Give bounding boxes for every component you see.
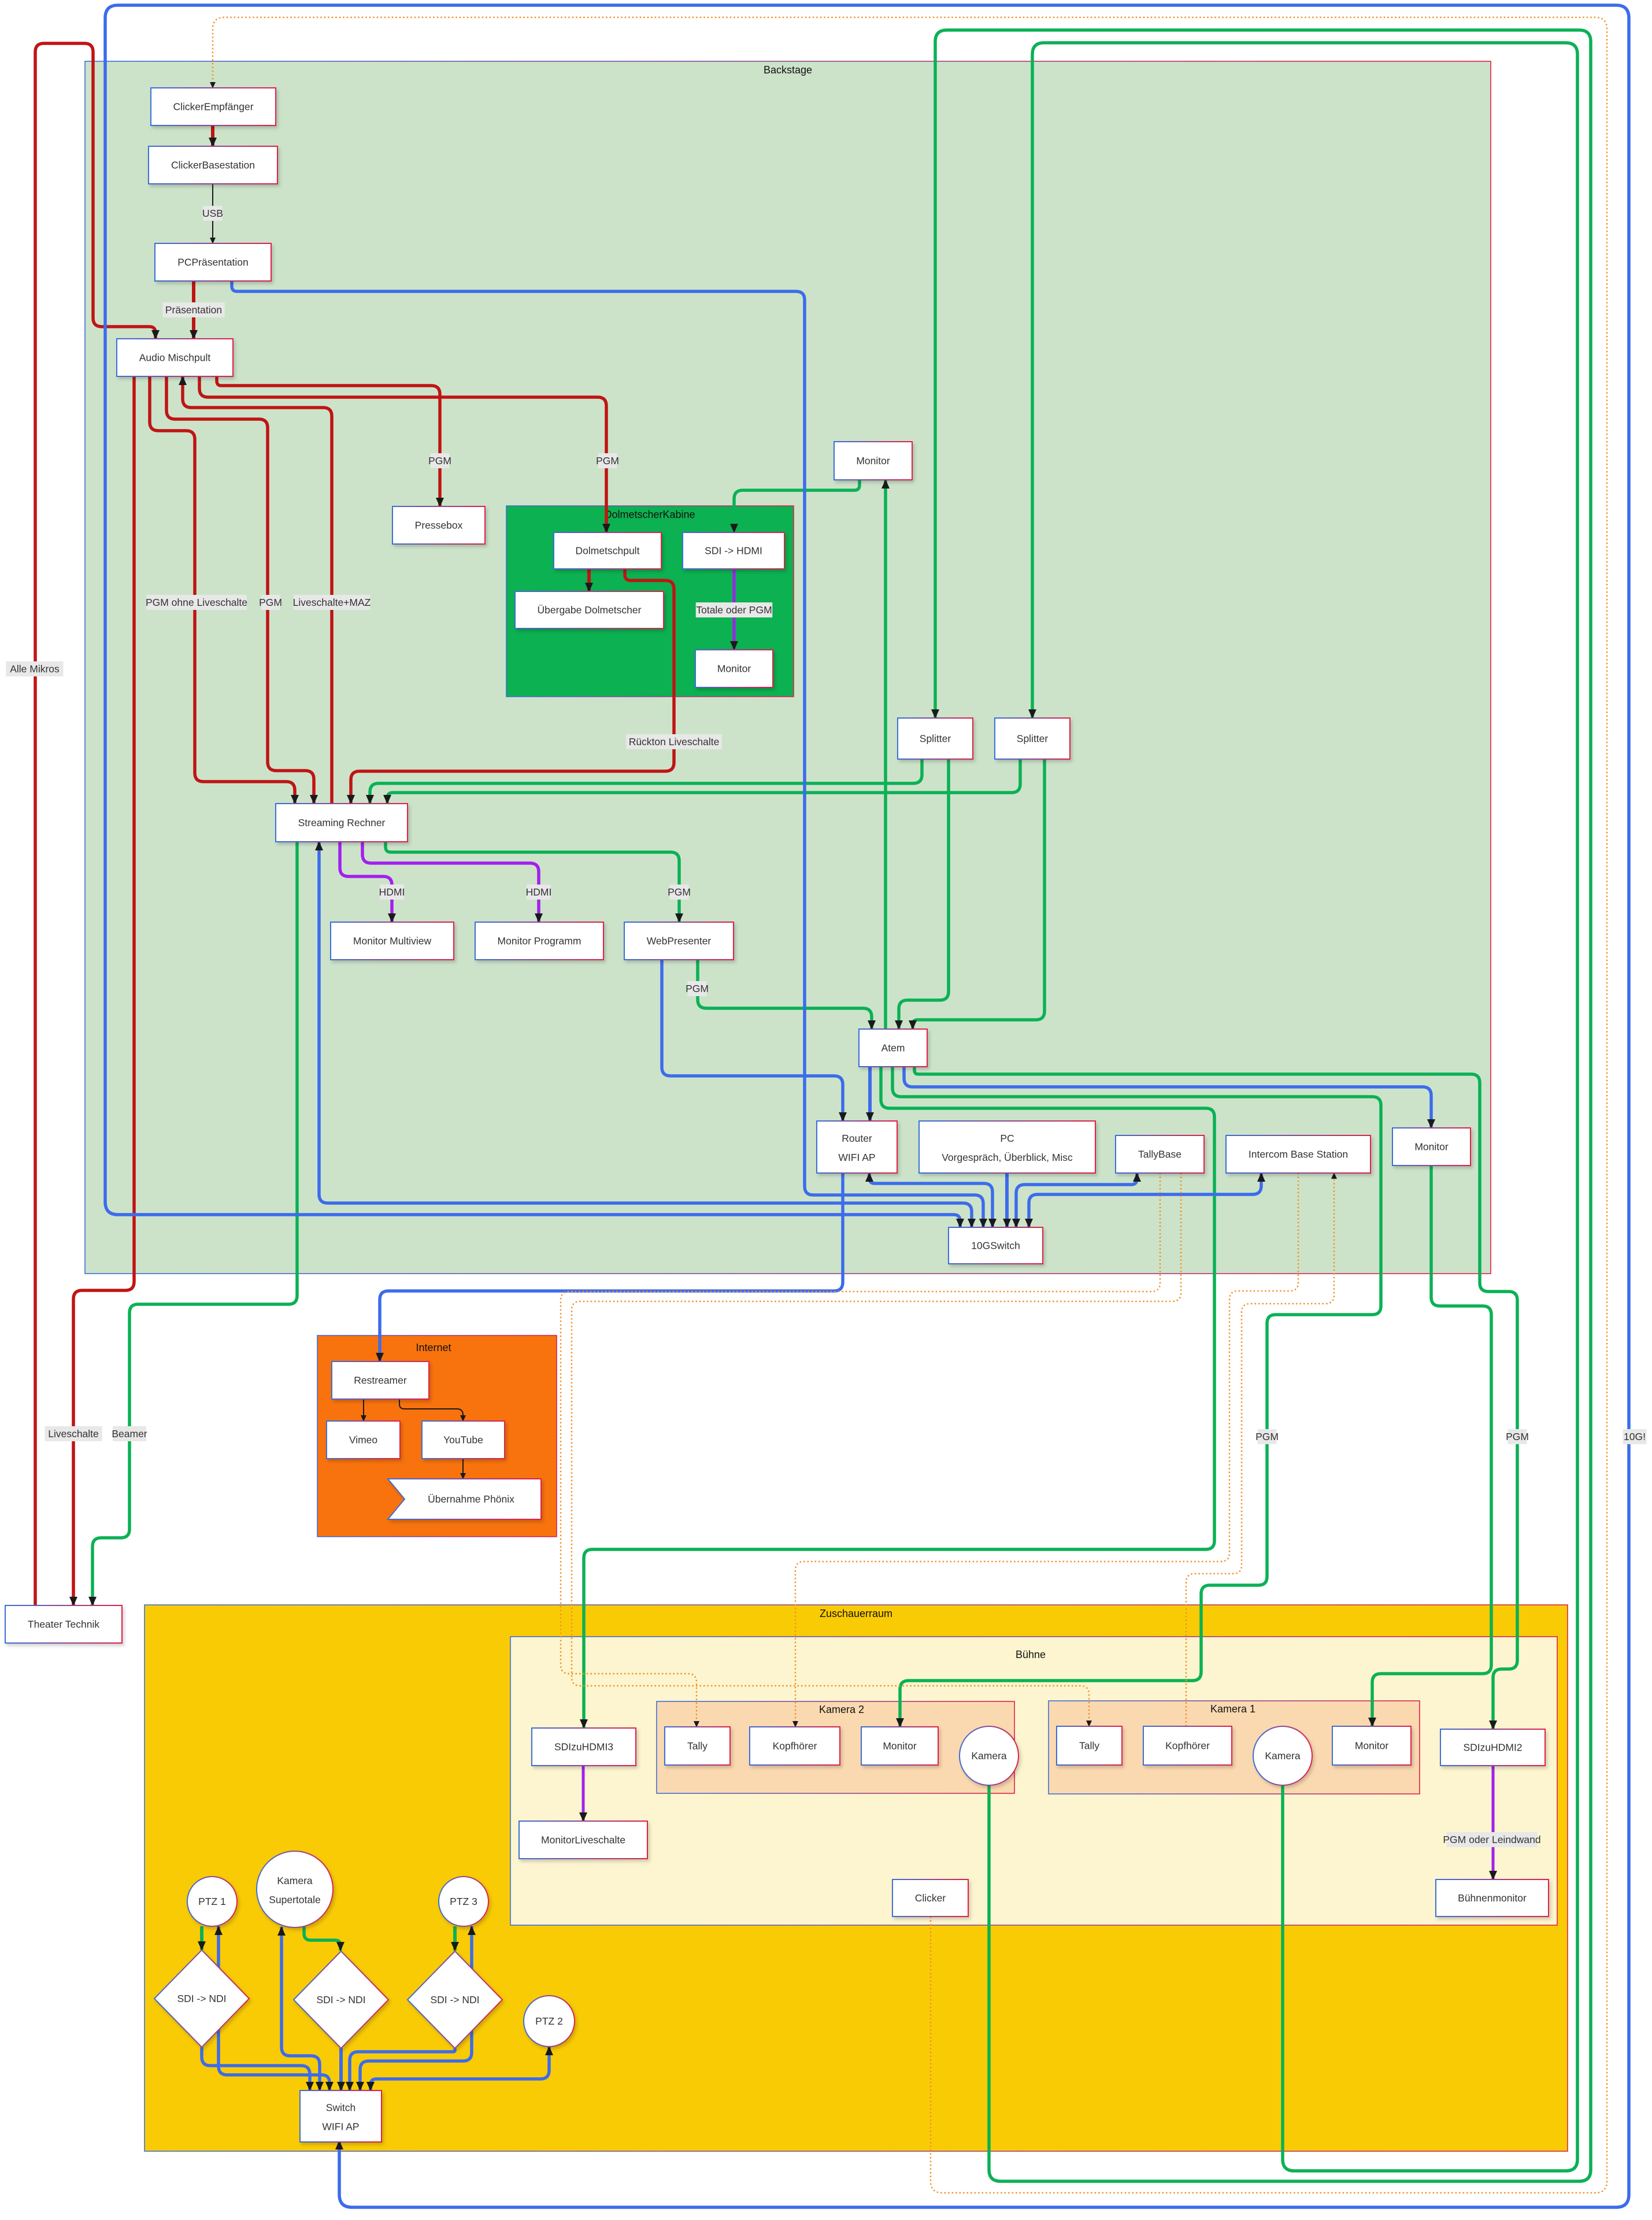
wire Intercom-KopfK2 [795, 1173, 1298, 1727]
svg-text:Supertotale: Supertotale [269, 1894, 321, 1905]
label PGM [428, 453, 451, 468]
label Präsentation [162, 302, 225, 317]
cluster Internet [317, 1335, 557, 1537]
label PGM [259, 595, 282, 610]
label Beamer [112, 1426, 147, 1441]
svg-text:Atem: Atem [881, 1042, 905, 1054]
node Monitor backstage right [1392, 1128, 1470, 1165]
wire AM-SR-2 [166, 376, 314, 804]
node Tally K1 [1057, 1726, 1122, 1765]
svg-text:Alle Mikros: Alle Mikros [10, 663, 60, 675]
svg-text:Übergabe Dolmetscher: Übergabe Dolmetscher [538, 604, 642, 616]
node PTZ 1 [187, 1877, 237, 1926]
svg-text:USB: USB [202, 208, 223, 219]
node SDIzuHDMI3 [532, 1728, 636, 1766]
label Liveschalte+MAZ [293, 595, 371, 610]
cluster Kamera 1 [1049, 1701, 1420, 1794]
svg-text:Übernahme Phönix: Übernahme Phönix [428, 1493, 514, 1505]
svg-text:SDIzuHDMI3: SDIzuHDMI3 [554, 1741, 613, 1753]
wire PCP-AM [192, 281, 195, 339]
wire Dolm-SR [351, 569, 674, 804]
svg-text:Dolmetschpult: Dolmetschpult [576, 545, 640, 557]
label Alle Mikros [6, 661, 63, 676]
svg-text:Totale oder PGM: Totale oder PGM [696, 604, 772, 616]
svg-text:MonitorLiveschalte: MonitorLiveschalte [541, 1834, 625, 1846]
node Switch WIFI AP [300, 2090, 381, 2142]
svg-text:SDI -> NDI: SDI -> NDI [177, 1993, 226, 2004]
svg-text:PGM oder Leindwand: PGM oder Leindwand [1443, 1834, 1540, 1845]
label PGM [596, 453, 619, 468]
svg-text:TallyBase: TallyBase [1138, 1149, 1181, 1160]
node SDI -&gt; HDMI [683, 532, 784, 569]
svg-text:Switch: Switch [326, 2102, 356, 2114]
node Monitor K1 [1332, 1726, 1411, 1765]
svg-text:PTZ 1: PTZ 1 [198, 1896, 226, 1907]
label PGM [1255, 1429, 1279, 1444]
svg-text:Restreamer: Restreamer [354, 1375, 407, 1386]
wire PTZ1-Switch [218, 1926, 329, 2090]
svg-text:Kopfhörer: Kopfhörer [773, 1740, 817, 1752]
wire KamK2-Splitter1 [935, 30, 1591, 2181]
svg-text:DolmetscherKabine: DolmetscherKabine [604, 509, 695, 520]
wire MonTop-SDIHDMI [734, 480, 860, 532]
svg-text:PTZ 2: PTZ 2 [535, 2015, 563, 2027]
svg-text:Kamera 2: Kamera 2 [819, 1704, 864, 1715]
wire Router-10GS [869, 1173, 992, 1227]
svg-text:Tally: Tally [687, 1740, 708, 1752]
wire YouTube-Uebernahme [462, 1459, 464, 1479]
node Monitor K2 [861, 1727, 938, 1765]
node 10GSwitch [949, 1227, 1043, 1264]
svg-text:WIFI AP: WIFI AP [838, 1152, 875, 1163]
svg-text:Kamera: Kamera [971, 1750, 1007, 1762]
node ClickerBasestation [149, 146, 277, 184]
wire SDIHDMI-MonKabine [733, 569, 736, 650]
node SDI -&gt; NDI 3 [408, 1951, 502, 2048]
svg-text:PC: PC [1000, 1133, 1014, 1144]
wire Splitter2-Atem [913, 759, 1044, 1029]
node Übernahme Phönix [388, 1479, 541, 1519]
svg-text:PGM: PGM [1255, 1431, 1279, 1442]
node Restreamer [332, 1361, 429, 1399]
node Atem [859, 1029, 927, 1067]
svg-text:PCPräsentation: PCPräsentation [177, 257, 249, 268]
node SDIzuHDMI2 [1440, 1729, 1545, 1766]
wire Atem-Router [868, 1067, 872, 1121]
wire Splitter1-SR [370, 759, 922, 804]
label PGM [668, 885, 691, 900]
svg-text:Präsentation: Präsentation [165, 304, 222, 316]
svg-text:WIFI AP: WIFI AP [322, 2121, 359, 2133]
svg-text:Monitor: Monitor [1414, 1141, 1449, 1153]
wire d1-Switch [202, 2047, 310, 2090]
node PCPräsentation [155, 243, 271, 281]
wire TT-AM [35, 43, 155, 1605]
svg-text:Liveschalte+MAZ: Liveschalte+MAZ [293, 597, 371, 608]
wire SDIzuHDMI2-Buehnenmonitor [1492, 1766, 1495, 1879]
wire Router-Restreamer [380, 1173, 843, 1361]
wire SDIzuHDMI3-MonLive [582, 1766, 585, 1821]
node Clicker [892, 1879, 968, 1916]
node Monitor backstage top [834, 442, 912, 480]
wire PTZ2-Switch [371, 2047, 549, 2090]
node Kopfhörer K2 [750, 1727, 840, 1765]
node Streaming Rechner [276, 804, 408, 842]
svg-text:SDI -> NDI: SDI -> NDI [316, 1994, 365, 2006]
node Kopfhörer K1 [1143, 1726, 1232, 1765]
label PGM [1506, 1429, 1529, 1444]
svg-text:Backstage: Backstage [764, 64, 812, 76]
wire Splitter1-Atem [899, 759, 949, 1029]
svg-text:SDIzuHDMI2: SDIzuHDMI2 [1463, 1742, 1522, 1753]
svg-text:Audio Mischpult: Audio Mischpult [139, 352, 211, 364]
svg-text:PGM: PGM [259, 597, 282, 608]
node MonitorLiveschalte [519, 1821, 647, 1859]
svg-text:ClickerEmpfänger: ClickerEmpfänger [173, 101, 253, 113]
svg-text:10G!: 10G! [1624, 1431, 1646, 1442]
wire Atem-MonTop [884, 480, 887, 1029]
wire d3-Switch [350, 2048, 455, 2090]
svg-text:WebPresenter: WebPresenter [647, 935, 712, 947]
node WebPresenter [624, 922, 734, 960]
node Kamera Supertotale [257, 1851, 333, 1927]
svg-text:PGM: PGM [1506, 1431, 1529, 1442]
svg-text:Pressebox: Pressebox [415, 520, 463, 531]
wire PTZ3-d3 [453, 1926, 457, 1951]
node Router WIFI AP [817, 1121, 897, 1173]
svg-text:Bühne: Bühne [1016, 1649, 1046, 1660]
wire KS-Switch [281, 1927, 320, 2090]
wire CB-PCP-USB [212, 184, 213, 243]
wire TallyBase-TallyK1 [572, 1173, 1181, 1726]
wire WP-Atem [698, 960, 872, 1029]
label PGM ohne Liveschalte [146, 595, 247, 610]
wire SR-MonMultiview [340, 842, 392, 922]
node Kamera K2 [960, 1726, 1018, 1785]
wire PCP-10GS [232, 281, 983, 1227]
svg-text:Monitor: Monitor [856, 455, 890, 467]
svg-text:Internet: Internet [416, 1342, 451, 1353]
svg-text:Kopfhörer: Kopfhörer [1165, 1740, 1210, 1752]
cluster DolmetscherKabine [506, 506, 794, 697]
svg-text:Intercom Base Station: Intercom Base Station [1249, 1149, 1348, 1160]
wire Atem-SDIzuHDMI2 [914, 1067, 1517, 1729]
label HDMI [379, 885, 405, 900]
node Splitter 2 [995, 718, 1070, 759]
node Monitor Programm [475, 922, 603, 960]
node TallyBase [1116, 1135, 1204, 1173]
node PTZ 2 [524, 1996, 575, 2047]
node Pressebox [392, 506, 485, 544]
svg-text:Zuschauerraum: Zuschauerraum [820, 1608, 892, 1619]
label 10G! [1623, 1429, 1646, 1444]
svg-text:Monitor: Monitor [717, 663, 751, 675]
cluster Buehne [510, 1637, 1557, 1925]
node Audio Mischpult [117, 339, 233, 376]
cluster Kamera 2 [657, 1701, 1014, 1793]
wire AM-Pressebox [217, 376, 440, 506]
svg-text:Vimeo: Vimeo [349, 1434, 377, 1446]
label PGM [686, 981, 709, 996]
node Vimeo [327, 1421, 400, 1459]
wire PTZ1-d1 [200, 1926, 203, 1950]
wire SR-AM [183, 376, 332, 804]
svg-text:Kamera 1: Kamera 1 [1210, 1703, 1255, 1715]
svg-text:Liveschalte: Liveschalte [48, 1428, 99, 1440]
wire CE-CB [211, 125, 214, 146]
svg-text:Kamera: Kamera [277, 1875, 313, 1886]
wire Atem-MonitorR [904, 1067, 1431, 1128]
svg-text:10GSwitch: 10GSwitch [971, 1240, 1020, 1252]
wire KamK1-Splitter2 [1032, 43, 1577, 2171]
svg-text:Kamera: Kamera [1265, 1750, 1301, 1762]
wire KS-d2 [304, 1927, 340, 1951]
svg-text:PTZ 3: PTZ 3 [450, 1896, 477, 1907]
wire Restreamer-YouTube [399, 1399, 463, 1421]
wire Atem-SDIzuHDMI3 [584, 1067, 1214, 1728]
svg-text:Router: Router [842, 1133, 872, 1144]
wire d2-Switch [339, 2048, 343, 2090]
wire AM-Dolmetschpult [199, 376, 606, 532]
wire SR-WebPresenter [386, 842, 679, 922]
node Monitor Kabine [695, 650, 773, 687]
wire AM-TT [73, 376, 134, 1605]
label USB [202, 206, 223, 221]
svg-text:Monitor Programm: Monitor Programm [498, 935, 581, 947]
svg-text:ClickerBasestation: ClickerBasestation [171, 160, 255, 171]
svg-text:Monitor: Monitor [883, 1740, 917, 1752]
svg-text:PGM: PGM [686, 983, 709, 994]
svg-text:YouTube: YouTube [443, 1434, 483, 1446]
node SDI -&gt; NDI 2 [294, 1951, 388, 2048]
node PTZ 3 [439, 1877, 488, 1926]
svg-text:Beamer: Beamer [112, 1428, 147, 1440]
svg-text:Vorgespräch, Überblick, Misc: Vorgespräch, Überblick, Misc [942, 1152, 1073, 1163]
wire TallyBase-10GS [1016, 1173, 1137, 1227]
svg-text:Clicker: Clicker [915, 1892, 946, 1904]
wire Atem-MonitorK2 [892, 1067, 1381, 1727]
wire WP-Router [662, 960, 843, 1121]
node SDI -&gt; NDI 1 [154, 1950, 249, 2047]
svg-text:Monitor Multiview: Monitor Multiview [353, 935, 432, 947]
node Bühnenmonitor [1436, 1879, 1549, 1916]
label HDMI [526, 885, 552, 900]
node Kamera K1 [1253, 1726, 1312, 1785]
svg-text:PGM: PGM [668, 886, 691, 898]
svg-text:Splitter: Splitter [1017, 733, 1049, 745]
node Intercom Base Station [1226, 1135, 1371, 1173]
svg-text:PGM: PGM [596, 455, 619, 467]
wire SR-TT [92, 842, 297, 1605]
label Liveschalte [45, 1426, 102, 1441]
svg-text:Streaming Rechner: Streaming Rechner [298, 817, 386, 828]
cluster Backstage [85, 61, 1491, 1274]
wire Restreamer-Vimeo [363, 1399, 364, 1421]
node Theater Technik [5, 1605, 122, 1643]
node PC Vorgespräch [919, 1121, 1095, 1173]
svg-text:Theater Technik: Theater Technik [28, 1619, 99, 1630]
wire TallyBase-TallyK2 [561, 1173, 1160, 1727]
wire SR-MonProgramm [362, 842, 539, 922]
node YouTube [422, 1421, 505, 1459]
svg-text:SDI -> NDI: SDI -> NDI [430, 1994, 479, 2006]
cluster Zuschauerraum [145, 1605, 1568, 2151]
node Monitor Multiview [331, 922, 454, 960]
label Rückton Liveschalte [626, 734, 722, 749]
label Totale oder PGM [696, 602, 773, 617]
svg-text:Rückton Liveschalte: Rückton Liveschalte [629, 736, 720, 748]
svg-text:SDI -> HDMI: SDI -> HDMI [705, 545, 762, 557]
svg-text:HDMI: HDMI [379, 886, 405, 898]
svg-text:Bühnenmonitor: Bühnenmonitor [1458, 1892, 1527, 1904]
node Übergabe Dolmetscher [515, 591, 664, 628]
node Dolmetschpult [554, 532, 661, 569]
svg-text:PGM ohne Liveschalte: PGM ohne Liveschalte [146, 597, 247, 608]
wire AM-SR-1 [150, 376, 295, 804]
wire Splitter2-SR [387, 759, 1020, 804]
node Splitter 1 [898, 718, 973, 759]
svg-text:Splitter: Splitter [920, 733, 951, 745]
wire PC-10GS [1005, 1173, 1009, 1227]
svg-text:PGM: PGM [428, 455, 451, 467]
label PGM oder Leindwand [1443, 1832, 1540, 1847]
wire PTZ3-Switch [360, 1926, 472, 2090]
svg-text:HDMI: HDMI [526, 886, 552, 898]
svg-text:Tally: Tally [1079, 1740, 1099, 1752]
wire KopfK1-Intercom [1186, 1173, 1334, 1726]
wire MonitorR-MonitorK1 [1372, 1165, 1491, 1726]
node Tally K2 [665, 1727, 730, 1765]
node ClickerEmpfänger [151, 88, 276, 125]
wire SR-10GS [319, 842, 972, 1227]
wire Intercom-10GS [1029, 1173, 1261, 1227]
svg-text:Monitor: Monitor [1355, 1740, 1389, 1752]
wire Dolm-Uebergabe [587, 569, 591, 591]
